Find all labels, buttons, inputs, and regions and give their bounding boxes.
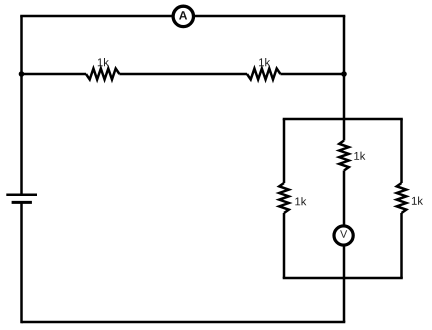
wire: left rail upper (battery + up to top wire) bbox=[20, 16, 23, 195]
wire: second horizontal left segment (left rail to R1) bbox=[22, 73, 87, 76]
wire: middle branch lower (R2 through voltmeter to bottom wire) bbox=[343, 171, 346, 323]
junction node at right rail / resistor row bbox=[341, 71, 347, 77]
battery V1 short negative plate bbox=[12, 201, 32, 204]
wire: left rail lower (battery - down to bottom wire) bbox=[20, 202, 23, 323]
resistor R3 (left parallel, vertical) bbox=[279, 183, 289, 213]
wire: second horizontal right segment (R4 to right rail) bbox=[280, 73, 344, 76]
voltmeter M2 body bbox=[334, 226, 353, 245]
voltmeter M2 letter V bbox=[340, 230, 347, 237]
resistor R5 (right parallel, vertical) bbox=[397, 183, 407, 213]
wire: second horizontal middle segment (R1 to R4) bbox=[119, 73, 247, 76]
wire: box right edge upper bbox=[400, 119, 403, 183]
label 1k for R1 bbox=[98, 58, 109, 66]
wire: parallel box top bbox=[283, 118, 403, 121]
wire: parallel box bottom bbox=[283, 277, 403, 280]
wire: bottom horizontal return bbox=[22, 321, 346, 324]
wire: box left edge upper bbox=[283, 119, 286, 183]
label 1k for R2 bbox=[354, 152, 365, 160]
resistor R1 (left series, horizontal) bbox=[86, 69, 119, 80]
label 1k for R3 bbox=[295, 197, 306, 205]
battery V1 long positive plate bbox=[6, 194, 37, 197]
wire: right rail upper (top wire down to R2) bbox=[343, 16, 346, 141]
ammeter M1 body bbox=[173, 6, 193, 26]
wire: box left edge lower bbox=[283, 213, 286, 278]
junction node at left rail / resistor row bbox=[19, 71, 25, 77]
label 1k for R4 bbox=[259, 58, 270, 66]
resistor R4 (right series, horizontal) bbox=[247, 69, 280, 80]
wire: box right edge lower bbox=[400, 213, 403, 278]
label 1k for R5 bbox=[412, 197, 423, 205]
wire: top horizontal from battery + to right rail bbox=[20, 15, 345, 18]
ammeter M1 letter A bbox=[179, 11, 187, 19]
resistor R2 (middle branch, vertical) bbox=[339, 141, 349, 171]
